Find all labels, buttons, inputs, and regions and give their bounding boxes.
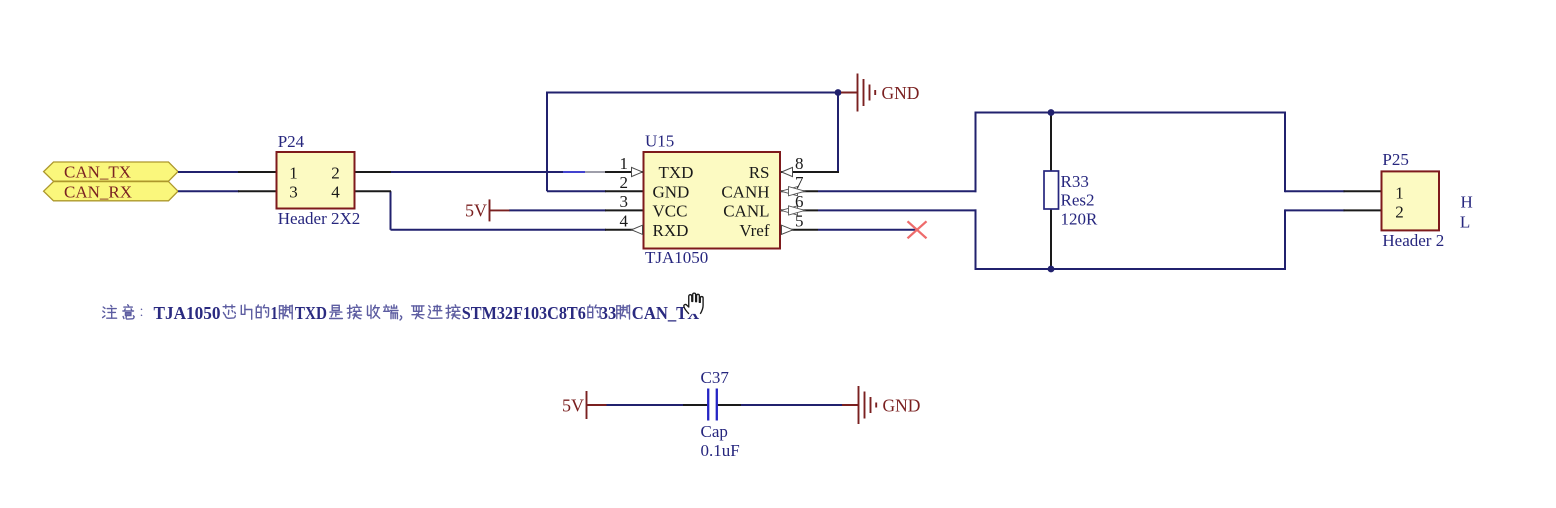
- svg-text:Cap: Cap: [701, 422, 728, 441]
- svg-text:TXD: TXD: [295, 303, 327, 323]
- svg-text:TXD: TXD: [659, 163, 694, 182]
- svg-text:GND: GND: [882, 83, 920, 103]
- svg-text:6: 6: [795, 192, 804, 211]
- svg-text:RXD: RXD: [653, 221, 689, 240]
- svg-text:4: 4: [331, 183, 340, 202]
- svg-text:5: 5: [795, 212, 804, 231]
- svg-text:5V: 5V: [562, 395, 584, 415]
- svg-text:7: 7: [795, 173, 804, 192]
- svg-text:P25: P25: [1382, 150, 1408, 169]
- svg-text:VCC: VCC: [653, 202, 688, 221]
- svg-text:Vref: Vref: [739, 221, 769, 240]
- svg-text:H: H: [1461, 192, 1473, 211]
- svg-text:Header 2X2: Header 2X2: [278, 209, 361, 228]
- svg-text:GND: GND: [653, 182, 690, 201]
- svg-text:3: 3: [289, 183, 298, 202]
- svg-text:CANH: CANH: [721, 182, 769, 201]
- svg-text:Res2: Res2: [1061, 191, 1095, 210]
- svg-text:4: 4: [620, 212, 629, 231]
- svg-text:TJA1050: TJA1050: [154, 303, 221, 323]
- svg-text:L: L: [1460, 212, 1470, 231]
- svg-text:U15: U15: [645, 132, 674, 151]
- svg-text:120R: 120R: [1061, 209, 1099, 228]
- svg-text:8: 8: [795, 154, 804, 173]
- svg-text:C37: C37: [701, 368, 730, 387]
- svg-text:CAN_TX: CAN_TX: [64, 163, 131, 182]
- svg-text:1: 1: [271, 303, 279, 323]
- svg-text:RS: RS: [749, 163, 770, 182]
- svg-text:0.1uF: 0.1uF: [701, 441, 740, 460]
- svg-text:P24: P24: [278, 132, 305, 151]
- svg-text:Header 2: Header 2: [1382, 231, 1444, 250]
- svg-text:2: 2: [620, 173, 629, 192]
- svg-text:2: 2: [1395, 203, 1404, 222]
- svg-text:CANL: CANL: [723, 202, 769, 221]
- svg-text:R33: R33: [1061, 172, 1089, 191]
- svg-text:2: 2: [331, 163, 340, 182]
- svg-text:1: 1: [620, 154, 629, 173]
- svg-text:3: 3: [620, 192, 629, 211]
- svg-text:1: 1: [289, 163, 298, 182]
- svg-text:STM32F103C8T6: STM32F103C8T6: [462, 303, 586, 323]
- svg-text:5V: 5V: [465, 201, 487, 221]
- svg-text:TJA1050: TJA1050: [645, 248, 708, 267]
- svg-text:33: 33: [600, 303, 617, 323]
- svg-text:GND: GND: [883, 395, 921, 415]
- svg-text:CAN_RX: CAN_RX: [64, 182, 132, 201]
- svg-text:1: 1: [1395, 183, 1404, 202]
